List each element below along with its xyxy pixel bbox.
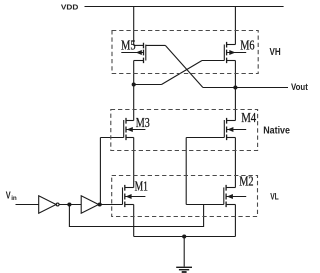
svg-text:in: in [11, 195, 17, 202]
svg-text:VH: VH [270, 47, 281, 58]
svg-text:Vout: Vout [291, 82, 308, 92]
svg-text:M3: M3 [136, 115, 150, 130]
svg-text:VDD: VDD [61, 3, 79, 12]
svg-text:V: V [6, 191, 11, 202]
svg-text:Native: Native [263, 124, 290, 136]
svg-text:M5: M5 [121, 37, 136, 52]
svg-text:M1: M1 [135, 178, 148, 193]
svg-text:M2: M2 [239, 174, 254, 189]
svg-text:M6: M6 [240, 37, 255, 52]
svg-text:M4: M4 [241, 110, 256, 125]
svg-text:VL: VL [270, 191, 279, 201]
